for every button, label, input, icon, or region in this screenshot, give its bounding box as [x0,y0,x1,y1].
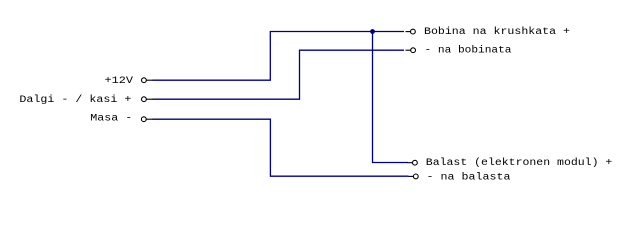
wire W1: +12V terminal to top rail [153,32,405,81]
terminal Balast + [408,160,418,165]
svg-text:Bobina na krushkata +: Bobina na krushkata + [424,26,570,38]
terminal Bobina + [406,29,416,34]
junction dot [370,29,375,34]
svg-text:- na balasta: - na balasta [427,171,511,183]
svg-text:Masa -: Masa - [90,114,132,125]
terminal Masa [141,117,153,122]
wire W2: Dalgi terminal up to second rail [153,50,405,99]
svg-text:Dalgi - / kasi +: Dalgi - / kasi + [19,94,131,106]
wire W3: Masa terminal down to bottom rail [153,119,409,176]
terminal Dalgi [142,97,154,102]
terminal - na bobinata [406,48,416,53]
svg-text:Balast (elektronen modul) +: Balast (elektronen modul) + [426,157,613,169]
terminal - na balasta [409,174,419,179]
svg-text:+12V: +12V [105,76,134,87]
terminal +12V [142,78,154,83]
wire W4: junction drop to Balast rail [373,32,409,163]
svg-text:- na bobinata: - na bobinata [425,45,512,57]
